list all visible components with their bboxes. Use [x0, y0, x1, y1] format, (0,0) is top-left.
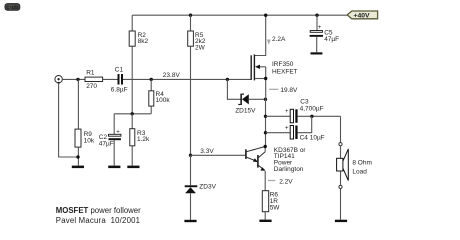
transistor Q2 darlington KD367B	[246, 145, 307, 173]
title text	[56, 206, 141, 225]
svg-text:47µF: 47µF	[324, 36, 339, 43]
svg-text:MOSFET power follower: MOSFET power follower	[56, 206, 141, 215]
svg-text:+40V: +40V	[354, 13, 371, 20]
capacitor C4	[266, 116, 325, 141]
node junction C4	[264, 131, 267, 134]
svg-text:Load: Load	[352, 169, 367, 176]
wire jack ground	[59, 83, 80, 159]
resistor R2	[129, 15, 148, 114]
ground under R3	[127, 166, 139, 169]
node junction gate branch	[226, 78, 229, 81]
ground under ZD3V	[184, 220, 196, 222]
input jack J1	[55, 76, 62, 85]
capacitor C1	[111, 67, 128, 94]
node junction zener-source	[264, 98, 267, 101]
svg-text:10k: 10k	[84, 137, 95, 144]
resistor R6	[262, 171, 280, 220]
wire gate zener branch	[227, 79, 240, 99]
svg-text:6.8µF: 6.8µF	[111, 86, 128, 93]
label 19.8V	[269, 87, 298, 94]
svg-text:Darlington: Darlington	[274, 166, 304, 173]
svg-text:4,700µF: 4,700µF	[300, 105, 324, 112]
power flag +40V	[347, 11, 377, 20]
zener ZD15V	[235, 94, 265, 115]
resistor R5	[188, 14, 206, 156]
svg-text:C1: C1	[115, 67, 124, 74]
wire top +40V rail	[132, 14, 347, 16]
svg-text:+: +	[285, 126, 289, 132]
svg-text:c·ub: c·ub	[6, 5, 18, 11]
ground under C5	[311, 52, 323, 54]
svg-text:2.2A: 2.2A	[272, 36, 286, 43]
resistor R3	[130, 114, 150, 166]
node junction at R9	[76, 78, 79, 81]
node junction 3.3V	[189, 154, 192, 157]
svg-text:8k2: 8k2	[138, 38, 149, 45]
svg-text:+: +	[285, 109, 289, 115]
node junction C4 to C3 wire	[310, 115, 313, 118]
label 23.8V	[163, 72, 181, 79]
svg-text:23.8V: 23.8V	[163, 72, 181, 79]
ground under C2	[108, 166, 120, 169]
ground under R6	[259, 220, 271, 222]
resistor R9	[75, 79, 95, 165]
label 2.2A with current arrow	[267, 36, 286, 45]
node junction at R4	[150, 78, 153, 81]
svg-text:8 Ohm: 8 Ohm	[352, 159, 372, 166]
node junction drain-rail	[264, 14, 267, 17]
node junction C3	[264, 115, 267, 118]
ground under R9	[72, 166, 84, 169]
svg-text:2W: 2W	[195, 45, 206, 52]
speaker LS1 8 Ohm	[337, 143, 372, 220]
svg-text:IRF350: IRF350	[272, 61, 294, 68]
svg-text:HEXFET: HEXFET	[272, 69, 298, 76]
svg-text:C4 10µF: C4 10µF	[300, 134, 325, 141]
svg-text:1.2k: 1.2k	[137, 136, 150, 143]
wire to speaker	[340, 116, 342, 142]
svg-text:ZD3V: ZD3V	[199, 183, 216, 190]
svg-text:100k: 100k	[156, 97, 171, 104]
logo badge	[5, 4, 20, 11]
svg-text:47µF: 47µF	[99, 140, 114, 147]
capacitor C3	[266, 99, 341, 123]
label 2.2V	[268, 178, 293, 185]
svg-text:19.8V: 19.8V	[280, 87, 298, 94]
svg-text:R1: R1	[86, 70, 95, 77]
wire source down to output node	[265, 99, 267, 146]
ground under speaker	[335, 220, 347, 222]
zener ZD3V	[185, 155, 217, 220]
wire input to gate (23.8V node)	[62, 78, 251, 80]
resistor R1	[85, 70, 103, 91]
resistor R4	[149, 79, 171, 113]
svg-text:ZD15V: ZD15V	[235, 108, 256, 115]
capacitor C5	[310, 14, 340, 53]
svg-text:5W: 5W	[270, 205, 281, 212]
node junction R3 top	[131, 112, 134, 115]
svg-text:3.3V: 3.3V	[200, 148, 214, 155]
svg-text:2.2V: 2.2V	[279, 178, 293, 185]
svg-text:270: 270	[86, 83, 97, 90]
wire bias node	[114, 113, 151, 115]
wire base	[191, 154, 246, 156]
svg-text:Pavel Macura 10/2001: Pavel Macura 10/2001	[56, 216, 140, 225]
capacitor C2	[99, 114, 121, 166]
transistor Q1 IRF350	[251, 15, 297, 99]
label 3.3V	[200, 148, 214, 155]
